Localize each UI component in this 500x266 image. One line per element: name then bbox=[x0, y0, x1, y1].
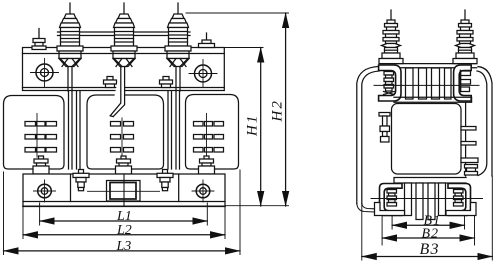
bushing T2 bbox=[111, 3, 137, 67]
dim L3 bbox=[4, 250, 241, 252]
dim H1 extension bbox=[224, 47, 263, 49]
clamp edge line right bbox=[465, 103, 467, 176]
W1 vent slots bbox=[25, 114, 57, 158]
lead from T2 into W2 bbox=[110, 67, 124, 117]
right lower nuts bbox=[465, 165, 478, 176]
bus bar bbox=[58, 32, 191, 36]
bolt stack in left top bracket bbox=[384, 72, 395, 95]
bolt stack in right top bracket (E shape) bbox=[461, 71, 471, 92]
core lamination ribs bottom bbox=[405, 183, 446, 220]
base bottom extension bbox=[225, 205, 289, 207]
outer coil profile right bbox=[477, 67, 492, 177]
top clamp lower flange bbox=[394, 97, 472, 102]
dim B3 bbox=[362, 256, 493, 258]
core channel 2 verticals bbox=[168, 91, 180, 169]
lead from T1 bbox=[68, 67, 72, 92]
dim L2 bbox=[23, 234, 225, 236]
plate hole left (circle+crosshair) bbox=[31, 59, 59, 87]
dim B1 bbox=[392, 224, 464, 226]
base stud right bbox=[157, 170, 173, 191]
lead from T3 bbox=[176, 67, 180, 92]
section centerline top bbox=[374, 84, 479, 86]
foot left bbox=[375, 203, 405, 216]
stud on plate left bbox=[32, 29, 46, 50]
terminal tab 1 bbox=[461, 127, 476, 131]
clamp bolt under plate B bbox=[160, 77, 173, 88]
dim B2 extension lines bbox=[382, 216, 474, 245]
W2 bottom clamp bolt bbox=[116, 156, 132, 174]
top clamp plate bbox=[23, 48, 225, 91]
svg-text:B3: B3 bbox=[420, 241, 440, 258]
bottom clamp upper flange bbox=[394, 178, 466, 184]
bushing T3 bbox=[165, 3, 191, 67]
bottom clamp bracket left bbox=[380, 184, 403, 216]
dim H1 bbox=[260, 48, 262, 207]
stud on plate right bbox=[199, 33, 215, 48]
core channel 1 verticals bbox=[69, 91, 81, 169]
dim B3 extension lines bbox=[362, 176, 493, 260]
svg-text:L1: L1 bbox=[116, 209, 132, 224]
base mounting hole left bbox=[34, 180, 56, 202]
dim L1 extension lines bbox=[40, 203, 208, 225]
clamp bolt under plate A bbox=[104, 77, 117, 88]
W1 bottom clamp bolt bbox=[33, 156, 49, 174]
dim B1 extension lines bbox=[392, 216, 464, 229]
plate hole right (circle+crosshair) bbox=[189, 60, 217, 88]
dim L3 extension lines bbox=[4, 170, 241, 255]
base channel bbox=[23, 174, 225, 202]
section centerline bottom bbox=[371, 198, 483, 200]
base mounting hole right bbox=[192, 180, 214, 202]
bolt stack in right bottom bracket bbox=[454, 190, 464, 207]
nameplate bbox=[107, 181, 141, 202]
dim H2 extension bbox=[186, 12, 289, 14]
svg-text:L3: L3 bbox=[116, 239, 132, 254]
svg-text:L2: L2 bbox=[116, 223, 132, 238]
svg-text:H1: H1 bbox=[245, 114, 261, 137]
terminal tab 3 bbox=[461, 158, 478, 163]
bottom clamp bracket right bbox=[448, 184, 471, 216]
svg-text:H2: H2 bbox=[270, 99, 286, 122]
side bushing P2 bbox=[453, 10, 477, 64]
side body (coil profile) bbox=[392, 104, 462, 175]
outer coil profile left bbox=[357, 67, 379, 204]
svg-text:B2: B2 bbox=[422, 227, 440, 242]
coil W3 (right winding) bbox=[186, 95, 239, 170]
bolt stack in left bottom bracket bbox=[387, 190, 397, 207]
top clamp bracket left (channel section) bbox=[379, 65, 401, 101]
W3 vent slots bbox=[194, 114, 224, 158]
dim L1 bbox=[40, 220, 208, 222]
core lamination ribs top bbox=[406, 68, 452, 99]
side top plate bbox=[380, 64, 477, 68]
frame joins foot left bbox=[357, 204, 375, 213]
bushing T1 bbox=[57, 3, 83, 67]
foot right bbox=[446, 203, 476, 216]
terminal tab 2 bbox=[461, 142, 476, 146]
dim B2 bbox=[382, 237, 474, 239]
dim L2 extension lines bbox=[23, 207, 225, 239]
dim H2 bbox=[285, 13, 287, 206]
left earth bolt bbox=[379, 113, 390, 143]
W2 vent slots bbox=[111, 118, 134, 157]
coil W2 (middle winding) bbox=[87, 95, 164, 169]
base stud left bbox=[73, 170, 89, 191]
coil W1 (left winding) bbox=[4, 96, 65, 170]
top clamp bracket right (channel section) bbox=[454, 65, 472, 101]
W3 bottom clamp bolt bbox=[199, 156, 215, 174]
side bushing P1 bbox=[379, 10, 403, 64]
